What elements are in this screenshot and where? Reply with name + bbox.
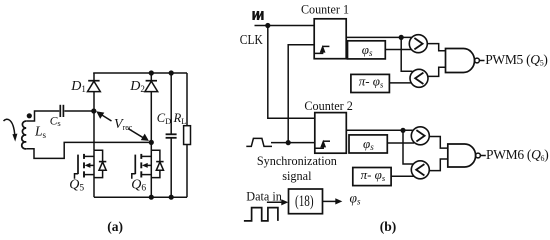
- sync pulse icon: [246, 138, 272, 146]
- wire node A down to Q5: [93, 111, 95, 150]
- body diode of Q5: [94, 150, 106, 177]
- svg-text:CD: CD: [157, 111, 171, 126]
- polarity dot: [27, 113, 32, 118]
- inductor Ls: [22, 121, 26, 149]
- arrow Vrec to node A: [96, 111, 111, 121]
- diode D1: [88, 73, 101, 92]
- wire counter1 to comparator less: [401, 37, 412, 71]
- junction dot D2 top rail: [149, 70, 154, 75]
- svg-text:φs: φs: [362, 42, 373, 58]
- pi-phi_s box (top): [351, 74, 390, 92]
- svg-text:Synchronization: Synchronization: [257, 153, 337, 168]
- node B: [149, 140, 154, 145]
- junction dot CD top rail: [169, 70, 174, 75]
- comparator less (top): [410, 69, 428, 87]
- pi-phi_s box (bottom): [353, 168, 391, 186]
- sync wire: [271, 142, 315, 144]
- transistor Q5: [75, 150, 95, 197]
- transistor Q6: [132, 142, 152, 197]
- junction dot counter 2 out: [400, 128, 405, 133]
- wire Ls bottom to node B: [26, 142, 151, 158]
- capacitor Cs: [60, 105, 63, 117]
- svg-text:Ls: Ls: [34, 123, 47, 140]
- wire counter2 to comparator less: [403, 130, 414, 164]
- wire NAND2 output: [480, 155, 485, 157]
- counter 1 output wire: [346, 36, 412, 38]
- svg-text:Data in: Data in: [246, 188, 282, 203]
- svg-text:D1: D1: [70, 79, 86, 94]
- wire Cs to node A: [64, 110, 94, 112]
- block (18): [289, 189, 323, 214]
- svg-text:Q6: Q6: [131, 177, 146, 193]
- bottom rail: [94, 196, 187, 198]
- top rail: [93, 72, 187, 74]
- wire Ls top to Cs: [26, 111, 59, 121]
- comparator less (bottom): [411, 161, 429, 179]
- svg-text:(b): (b): [380, 219, 397, 234]
- svg-text:PWM5 (Q5): PWM5 (Q5): [485, 52, 547, 68]
- wire comparator greater to nand (top): [427, 44, 445, 51]
- svg-text:RL: RL: [173, 111, 187, 126]
- counter 2 output wire: [346, 129, 413, 131]
- wire node A up to D1: [93, 92, 95, 111]
- NAND gate U1: [446, 49, 480, 73]
- node A: [91, 108, 96, 113]
- svg-text:φs: φs: [363, 136, 374, 152]
- junction dot CD bottom: [169, 195, 174, 200]
- sync wire to counter 1: [288, 45, 314, 143]
- svg-text:signal: signal: [282, 169, 312, 183]
- junction dot counter 1 out: [399, 35, 404, 40]
- comparator greater (top): [409, 35, 427, 53]
- svg-text:Cs: Cs: [50, 116, 61, 129]
- capacitor CD: [166, 73, 177, 197]
- counter 1 box: [314, 19, 346, 59]
- phi_s wire (bottom): [387, 142, 414, 144]
- wire NAND1 output: [479, 60, 484, 62]
- data waveform icon: [244, 208, 278, 221]
- wire CLK to counter 2: [268, 26, 315, 119]
- junction dot CLK: [265, 23, 270, 28]
- svg-text:Q5: Q5: [69, 177, 84, 193]
- pi-phi_s wire (top): [389, 82, 413, 84]
- body diode of Q6: [151, 150, 163, 177]
- svg-text:CLK: CLK: [240, 33, 263, 48]
- coupling arrow (mutual inductance): [4, 119, 18, 141]
- CLK wire: [255, 25, 315, 27]
- svg-text:PWM6 (Q6): PWM6 (Q6): [486, 147, 548, 163]
- svg-text:D2: D2: [129, 79, 145, 94]
- wire comparator less to nand (bottom): [429, 159, 448, 171]
- counter 2 box: [315, 113, 347, 154]
- resistor RL: [184, 73, 191, 197]
- phi_s box (bottom): [349, 135, 387, 153]
- arrow Vrec to node B: [128, 129, 149, 141]
- svg-text:(18): (18): [295, 193, 314, 210]
- data arrow: [267, 199, 288, 205]
- svg-text:Counter 2: Counter 2: [304, 98, 353, 113]
- phi_s wire (top): [385, 49, 413, 51]
- block output arrow: [323, 198, 342, 204]
- phi_s box (top): [348, 41, 386, 59]
- counter 2 edge symbol: [316, 140, 331, 148]
- wire comparator less to nand (top): [428, 67, 446, 76]
- comparator greater (bottom): [411, 127, 429, 145]
- clock waveform icon: [254, 11, 263, 20]
- svg-text:π- φs: π- φs: [361, 167, 386, 183]
- pi-phi_s wire (bottom): [391, 175, 414, 177]
- diode D2: [145, 73, 158, 142]
- svg-text:Counter 1: Counter 1: [301, 1, 349, 16]
- junction dot sync: [286, 140, 291, 145]
- NAND gate U2: [448, 144, 481, 167]
- svg-text:(a): (a): [107, 219, 123, 234]
- svg-text:π- φs: π- φs: [359, 74, 384, 90]
- wire comparator greater to nand (bottom): [429, 137, 448, 149]
- counter 1 edge symbol: [315, 45, 330, 53]
- junction dot Q6 bottom: [149, 195, 154, 200]
- svg-text:φs: φs: [350, 190, 361, 206]
